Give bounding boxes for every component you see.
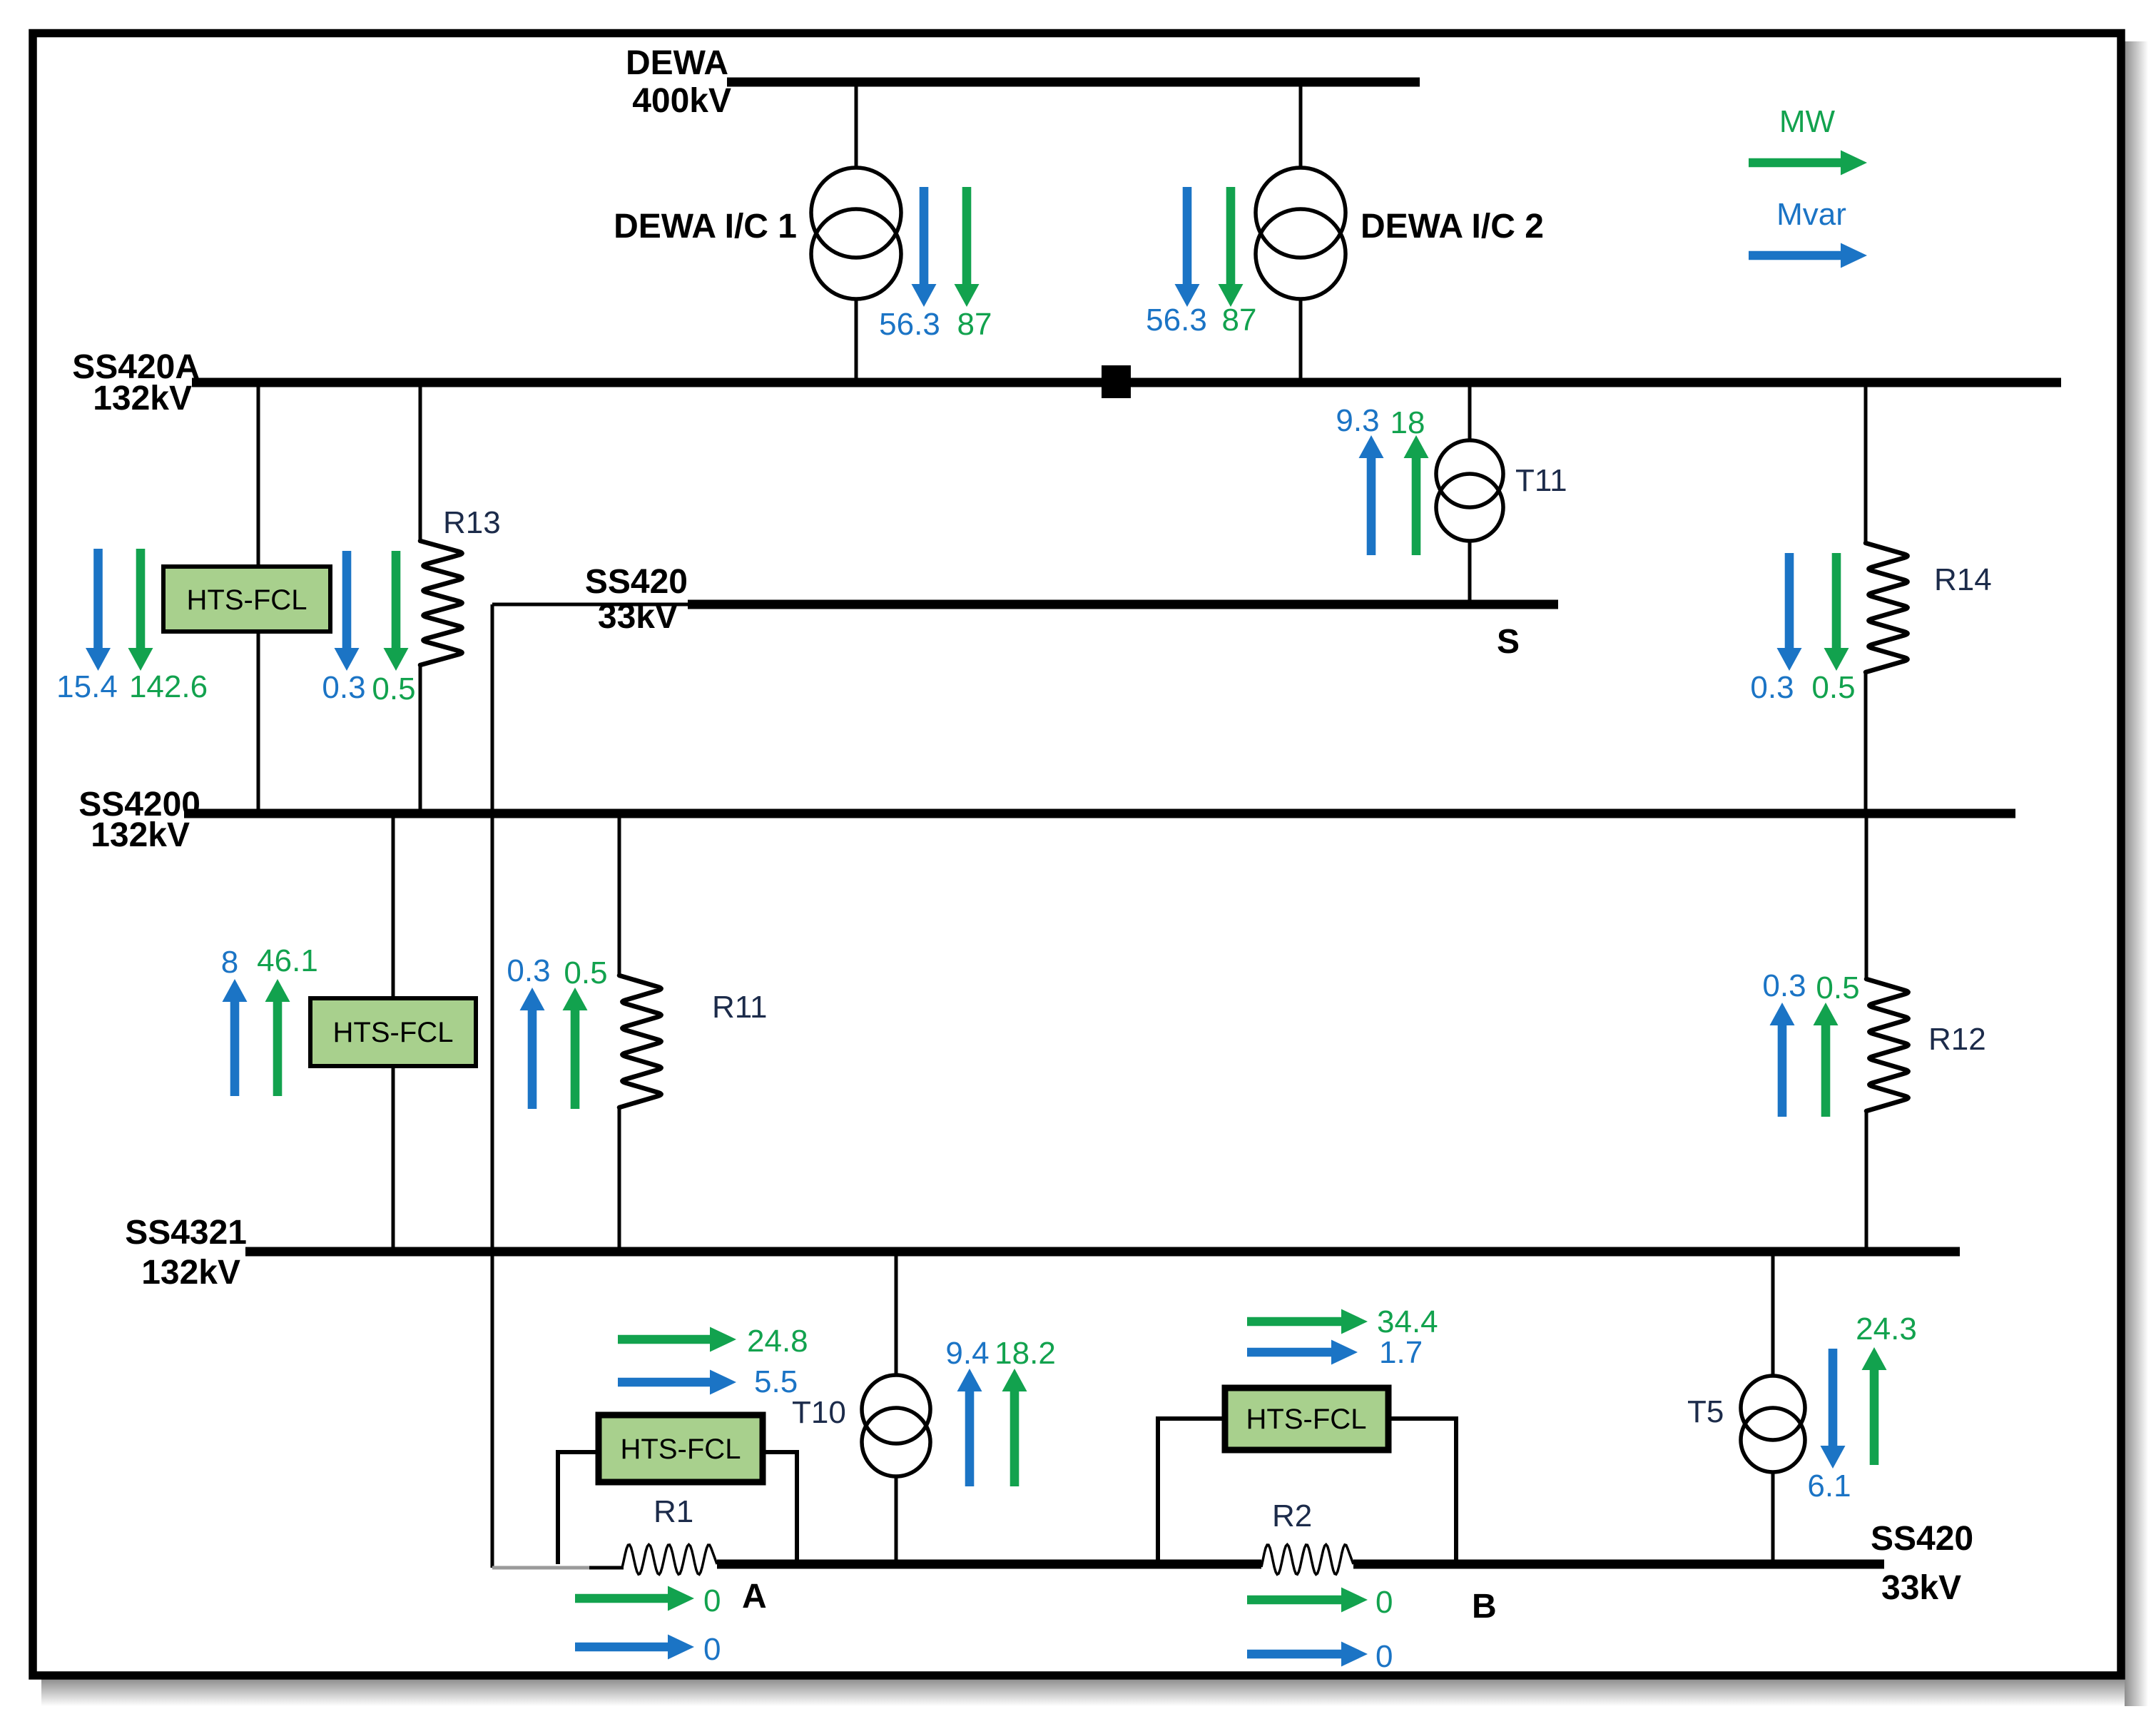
svg-text:6.1: 6.1: [1807, 1469, 1851, 1503]
mvar up-arrow T10: [957, 1369, 982, 1486]
mw up-arrow R11: [563, 988, 588, 1109]
svg-text:Mvar: Mvar: [1776, 197, 1846, 232]
svg-text:R14: R14: [1934, 562, 1992, 597]
svg-text:9.4: 9.4: [945, 1336, 989, 1371]
mw right-arrow below B: [1247, 1588, 1368, 1613]
wire DEWA I/C 1 upper: [855, 82, 858, 168]
wire HTS-FCL box 1 to SS4200: [257, 632, 260, 813]
HTS-FCL box 1 (SS420A-SS4200): [163, 567, 330, 632]
frame drop shadow bottom: [41, 1679, 2125, 1706]
svg-text:0.5: 0.5: [1816, 970, 1859, 1005]
svg-text:0: 0: [1376, 1585, 1393, 1620]
svg-text:B: B: [1472, 1588, 1497, 1626]
HTS-FCL box 2 (SS4200-SS4321): [310, 998, 476, 1066]
wire R12 to SS4321: [1865, 1111, 1868, 1252]
svg-text:SS420: SS420: [585, 563, 688, 601]
svg-text:15.4: 15.4: [56, 669, 118, 704]
bus SS4200 132kV: [184, 809, 2015, 818]
svg-text:8: 8: [221, 945, 238, 980]
svg-text:HTS-FCL: HTS-FCL: [187, 584, 307, 616]
wire R11 to SS4321: [618, 1107, 621, 1252]
transformer T5: [1741, 1376, 1805, 1440]
svg-text:DEWA I/C 2: DEWA I/C 2: [1361, 208, 1544, 245]
svg-text:DEWA I/C 1: DEWA I/C 1: [614, 208, 797, 245]
svg-text:0: 0: [1376, 1639, 1393, 1674]
resistor R2: [1261, 1545, 1353, 1575]
wire SS4200 to R12: [1865, 813, 1868, 979]
svg-text:5.5: 5.5: [754, 1364, 798, 1399]
svg-text:0.3: 0.3: [507, 953, 550, 988]
mvar up-arrow R12: [1770, 1003, 1795, 1117]
mvar right-arrow above R1: [618, 1370, 736, 1395]
svg-text:24.8: 24.8: [747, 1324, 808, 1359]
mw up-arrow R12: [1814, 1003, 1839, 1117]
wire S bus left stub: [492, 603, 688, 607]
wire HTS-FCL box 2 to SS4321: [392, 1065, 395, 1252]
transformer T11: [1436, 440, 1503, 507]
bus SS4321 132kV: [245, 1247, 1960, 1257]
mvar right-arrow below B: [1247, 1642, 1368, 1667]
wire SS420A to T11: [1468, 382, 1472, 441]
wire long drop from S bus to bottom: [491, 604, 494, 1568]
svg-text:DEWA: DEWA: [626, 44, 728, 82]
frame drop shadow right: [2125, 41, 2148, 1706]
svg-text:34.4: 34.4: [1377, 1304, 1438, 1339]
resistor R11: [619, 975, 661, 1107]
bus DEWA 400kV: [727, 78, 1420, 87]
svg-text:132kV: 132kV: [93, 380, 192, 417]
wire SS4321 to T10: [895, 1252, 898, 1376]
svg-text:1.7: 1.7: [1379, 1335, 1423, 1370]
wire DEWA I/C 1 lower: [855, 299, 858, 382]
svg-text:24.3: 24.3: [1856, 1312, 1917, 1347]
svg-text:A: A: [742, 1578, 767, 1616]
svg-text:R12: R12: [1928, 1022, 1986, 1057]
svg-text:SS4321: SS4321: [125, 1214, 247, 1252]
svg-text:R1: R1: [654, 1494, 693, 1529]
svg-text:T11: T11: [1515, 463, 1567, 498]
mvar down-arrow DEWA I/C 1: [912, 187, 937, 307]
svg-text:18: 18: [1390, 405, 1425, 440]
resistor R13: [420, 541, 462, 665]
mvar down-arrow R13: [335, 551, 360, 671]
wire T10 to bottom bus: [895, 1476, 898, 1564]
transformer DEWA I/C 1: [811, 168, 901, 258]
svg-text:87: 87: [1222, 303, 1257, 338]
legend mw arrow: [1749, 151, 1867, 176]
svg-text:0.5: 0.5: [564, 955, 607, 990]
transformer DEWA I/C 2: [1256, 168, 1346, 258]
wire R2 loop left: [1158, 1419, 1225, 1564]
resistor R12: [1866, 979, 1908, 1111]
wire SS420A to R13: [419, 382, 422, 541]
mw up-arrow T11: [1404, 435, 1429, 555]
svg-text:S: S: [1497, 623, 1520, 661]
mvar down-arrow T5: [1821, 1349, 1846, 1469]
svg-text:SS420: SS420: [1871, 1520, 1973, 1558]
mw down-arrow DEWA I/C 1: [955, 187, 980, 307]
svg-text:46.1: 46.1: [257, 943, 318, 978]
wire SS420A to HTS-FCL box 1: [257, 382, 260, 567]
mvar up-arrow T11: [1359, 435, 1384, 555]
mw down-arrow R13: [384, 551, 409, 671]
wire SS420A to R14: [1864, 382, 1868, 543]
svg-text:33kV: 33kV: [1881, 1569, 1961, 1607]
mw up-arrow SS4321 left: [265, 979, 290, 1096]
svg-text:0: 0: [703, 1583, 721, 1618]
wire T11 to S bus: [1468, 540, 1472, 604]
svg-text:R2: R2: [1272, 1498, 1312, 1533]
bus SS420A 132kV: [192, 378, 2061, 387]
svg-text:142.6: 142.6: [129, 669, 208, 704]
mw up-arrow T10: [1002, 1369, 1027, 1486]
mvar down-arrow feeder left: [86, 549, 111, 671]
wire SS4200 to HTS-FCL box 2: [392, 813, 395, 999]
transformer T10: [862, 1375, 930, 1444]
svg-text:56.3: 56.3: [1146, 303, 1207, 338]
mw right-arrow above R1: [618, 1327, 736, 1352]
wire T5 to bottom bus: [1771, 1471, 1775, 1564]
svg-text:132kV: 132kV: [141, 1254, 240, 1292]
svg-text:R13: R13: [443, 505, 501, 540]
wire DEWA I/C 2 lower: [1299, 299, 1303, 382]
svg-text:400kV: 400kV: [632, 82, 731, 120]
resistor R1: [622, 1545, 717, 1575]
svg-text:56.3: 56.3: [879, 307, 940, 342]
svg-text:0.3: 0.3: [322, 670, 365, 705]
HTS-FCL box 3 (parallel R1): [599, 1415, 763, 1482]
svg-text:87: 87: [957, 307, 992, 342]
mvar right-arrow above R2: [1247, 1340, 1358, 1365]
mvar down-arrow R14: [1777, 553, 1802, 671]
svg-text:0.5: 0.5: [372, 671, 415, 706]
mw down-arrow R14: [1824, 553, 1849, 671]
bus SS420 33kV S: [688, 600, 1558, 609]
bus SS420 33kV bottom (A-B): [717, 1560, 1261, 1569]
svg-text:0.3: 0.3: [1762, 968, 1806, 1003]
svg-text:T10: T10: [792, 1395, 846, 1430]
svg-text:HTS-FCL: HTS-FCL: [621, 1434, 741, 1465]
wire R2 loop right: [1388, 1419, 1456, 1564]
wire R1 loop right: [763, 1452, 797, 1564]
mw right-arrow below A: [575, 1586, 694, 1611]
resistor R14: [1866, 543, 1908, 672]
svg-text:9.3: 9.3: [1336, 403, 1379, 438]
mvar up-arrow SS4321 left: [223, 979, 248, 1096]
svg-text:HTS-FCL: HTS-FCL: [1246, 1404, 1367, 1435]
mw down-arrow DEWA I/C 2: [1219, 187, 1244, 307]
mvar up-arrow R11: [520, 988, 545, 1109]
svg-text:18.2: 18.2: [995, 1336, 1056, 1371]
wire SS4200 to R11: [618, 813, 621, 975]
mw right-arrow above R2: [1247, 1309, 1368, 1334]
wire R1 loop left: [558, 1452, 599, 1564]
svg-text:0: 0: [703, 1632, 721, 1667]
svg-text:132kV: 132kV: [91, 816, 190, 854]
mw up-arrow T5: [1862, 1347, 1887, 1465]
wire R13 to SS4200: [419, 665, 422, 813]
legend mvar arrow: [1749, 243, 1867, 268]
mvar down-arrow DEWA I/C 2: [1175, 187, 1200, 307]
svg-text:0.3: 0.3: [1750, 670, 1794, 705]
wire link to R1 squiggle: [589, 1566, 624, 1570]
wire R14 to SS4200: [1864, 672, 1868, 813]
wire gray link to R1: [492, 1566, 591, 1570]
svg-text:HTS-FCL: HTS-FCL: [333, 1017, 454, 1048]
svg-text:MW: MW: [1779, 104, 1836, 139]
mw down-arrow feeder left: [128, 549, 153, 671]
HTS-FCL box 4 (parallel R2): [1225, 1388, 1388, 1450]
node junction square on SS420A: [1102, 365, 1131, 398]
wire DEWA I/C 2 upper: [1299, 82, 1303, 168]
svg-text:R11: R11: [712, 990, 767, 1025]
svg-text:T5: T5: [1687, 1394, 1724, 1429]
mvar right-arrow below A: [575, 1635, 694, 1660]
svg-text:0.5: 0.5: [1811, 670, 1855, 705]
wire SS4321 to T5: [1771, 1252, 1775, 1376]
